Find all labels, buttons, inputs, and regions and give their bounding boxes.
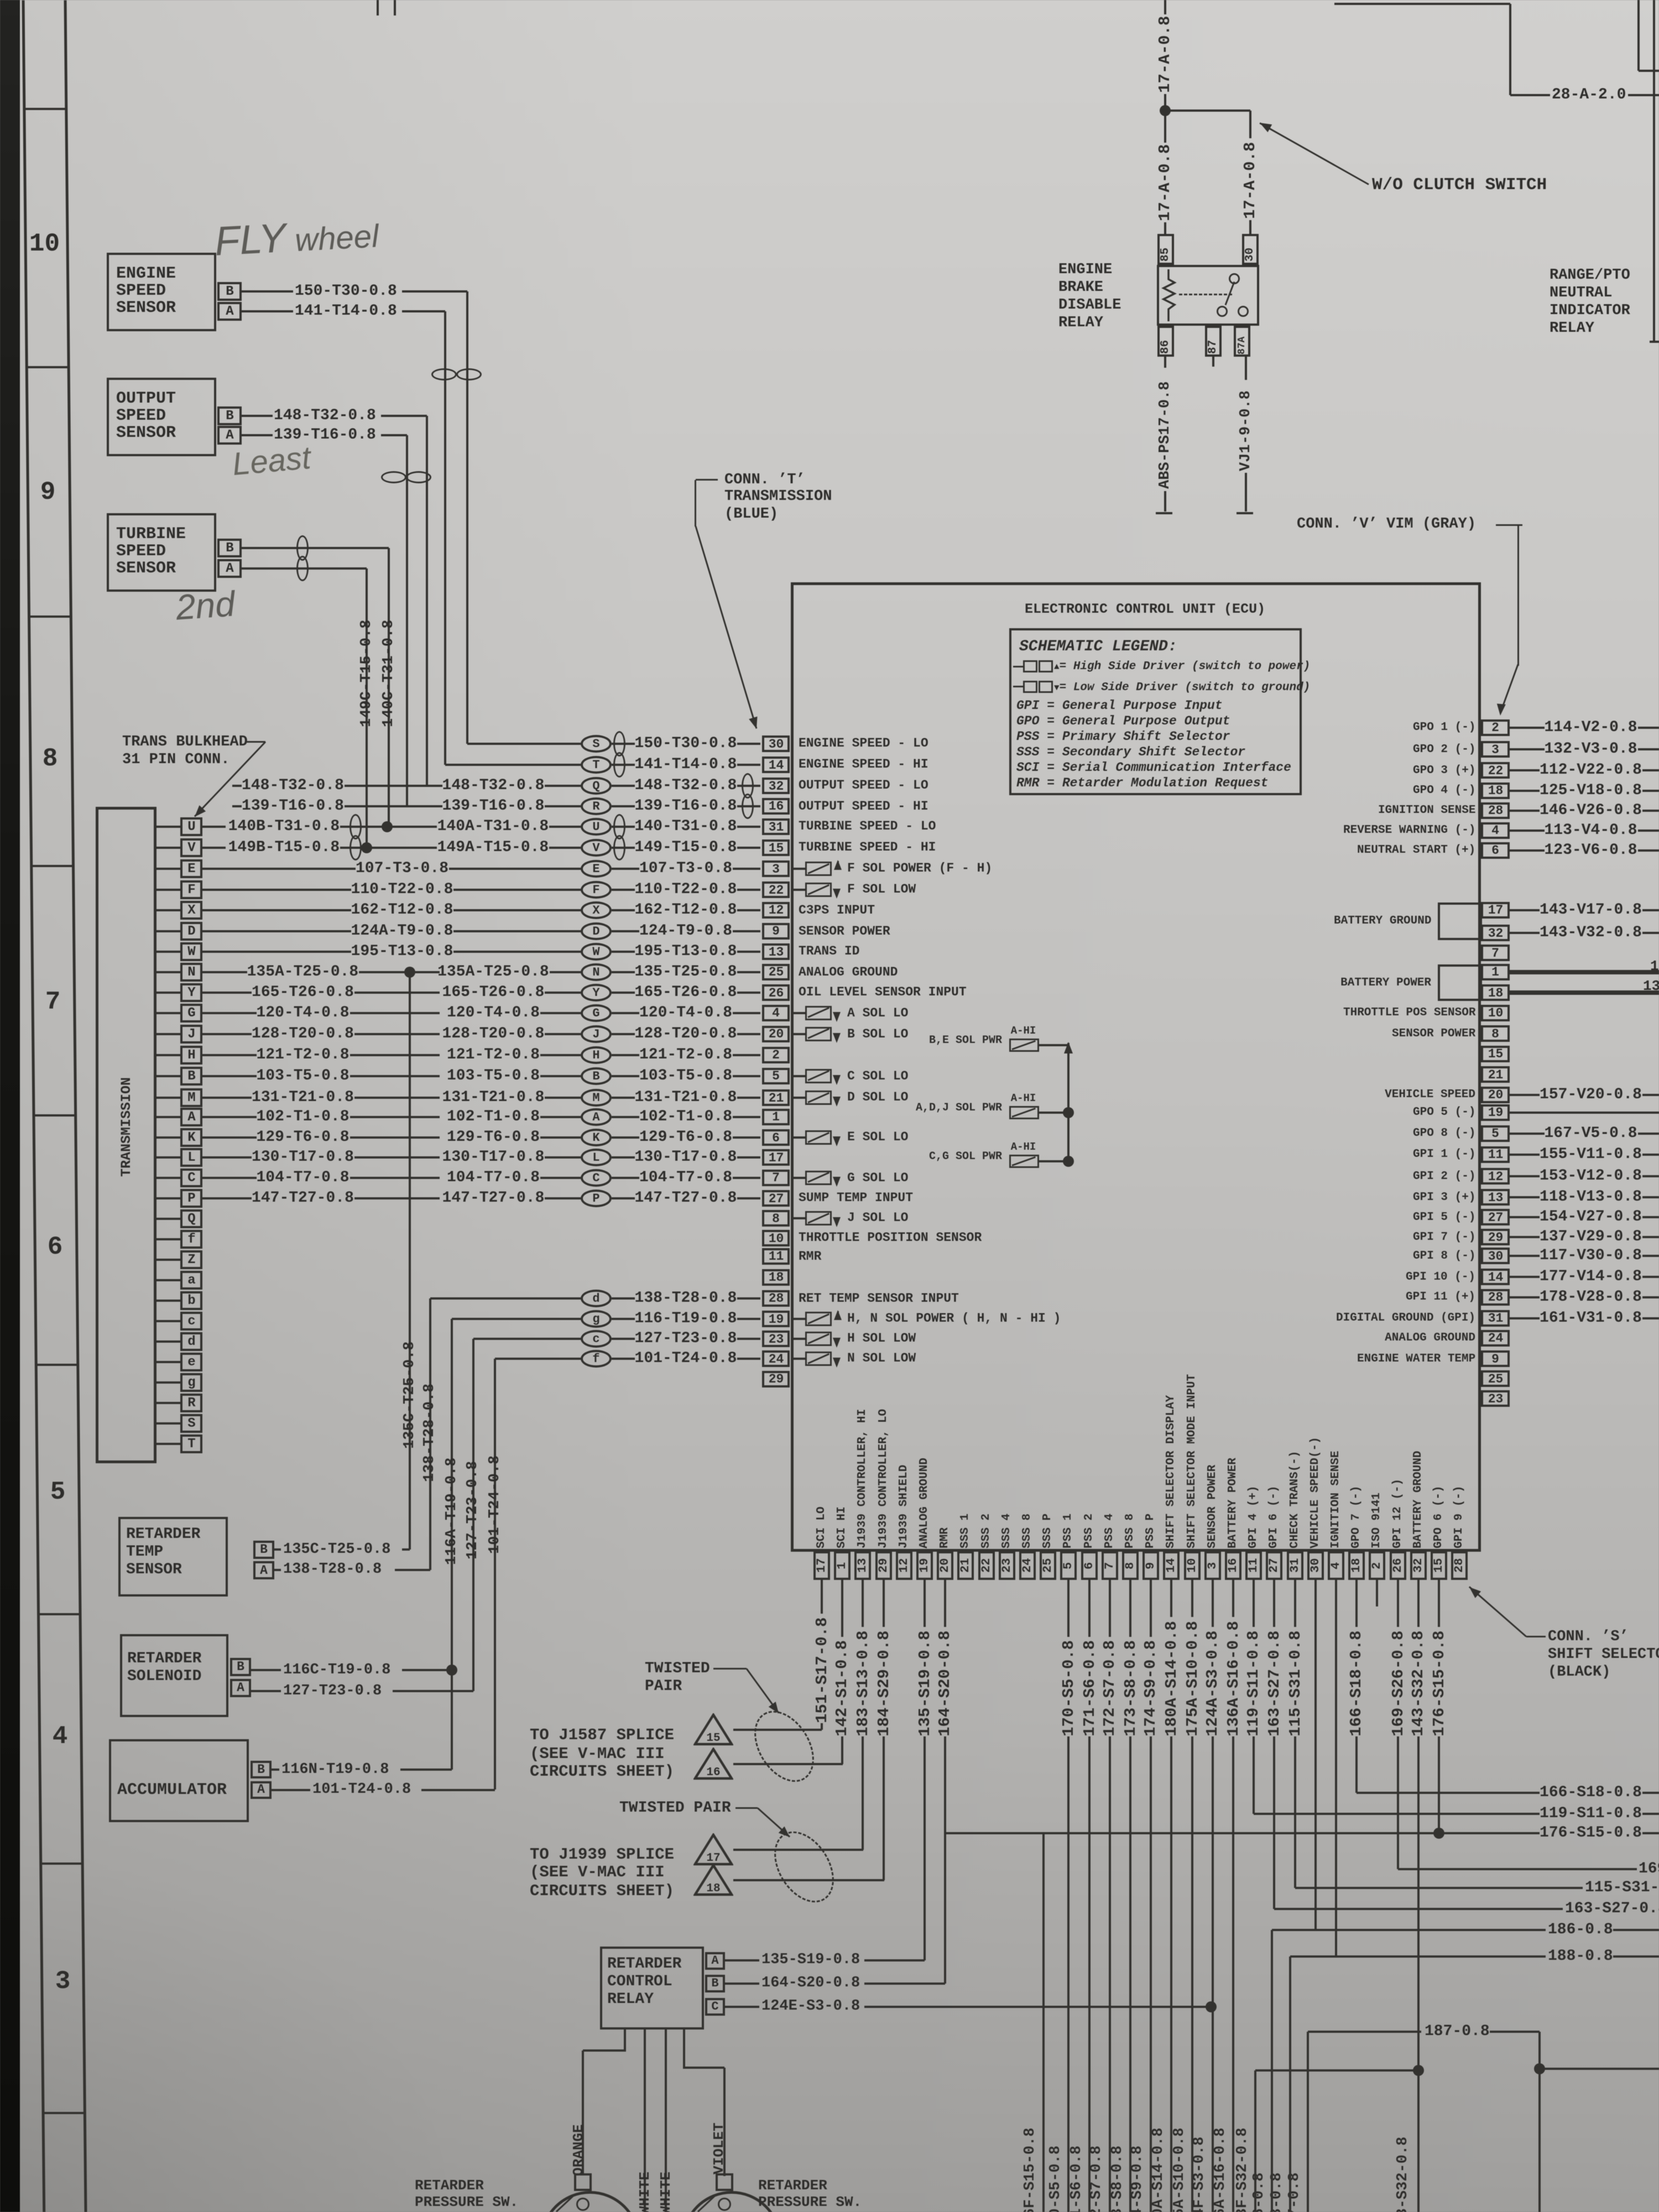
battery wire edge label 1 xyxy=(1650,958,1659,974)
wire 178-V28-0.8 xyxy=(1510,1296,1540,1298)
row number 6 xyxy=(45,1233,65,1261)
retarder temp sensor xyxy=(118,1517,228,1597)
wire down from pin 6 171-S6-0.8 xyxy=(1088,1580,1091,1637)
wire 125-V18-0.8 xyxy=(1510,790,1540,792)
ECU bottom pin 15 xyxy=(1431,1551,1447,1580)
connector pin E xyxy=(156,868,180,870)
ECU pin 20 right xyxy=(1481,1087,1510,1103)
legend text line xyxy=(1016,776,1268,790)
node g xyxy=(581,1310,612,1328)
cut wire stub top 1 xyxy=(377,0,379,15)
leader arrow to connector xyxy=(246,741,265,743)
ECU signal label TRANS ID xyxy=(799,945,859,958)
wire row C xyxy=(257,1170,349,1186)
wire to splice 16 xyxy=(733,1763,843,1765)
ECU pin 29 right xyxy=(1481,1229,1510,1245)
junction 17-A xyxy=(1160,105,1171,116)
ECU bottom pin 25 xyxy=(1040,1551,1056,1580)
wire 116N-T19-0.8 to accumulator xyxy=(272,1768,279,1771)
ECU right label DIGITAL GROUND (GPI) xyxy=(1336,1312,1475,1324)
connector pin N xyxy=(156,971,180,973)
ECU bottom pin 30 xyxy=(1307,1551,1324,1580)
ECU bottom pin 14 xyxy=(1163,1551,1180,1580)
ECU pin 17 right xyxy=(1481,902,1510,919)
wire row G xyxy=(257,1005,349,1021)
wire 127-T23-0.8 xyxy=(635,1331,737,1347)
ECU pin 15 right xyxy=(1481,1046,1510,1062)
node B xyxy=(581,1067,612,1085)
wire down from pin 8 173-S8-0.8 xyxy=(1129,1580,1131,1637)
wire 116-T19-0.8 xyxy=(635,1311,737,1327)
ECU pin 29 xyxy=(762,1371,790,1387)
node S xyxy=(581,735,612,753)
wire 162-T12-0.8 xyxy=(635,902,737,919)
node R xyxy=(581,797,612,815)
wire 146-V26-0.8 xyxy=(1510,810,1540,812)
wire row J xyxy=(252,1026,354,1042)
row number 9 xyxy=(38,478,58,506)
relay pin 87A xyxy=(1234,326,1250,357)
wire 115-S31-0.8 horizontal xyxy=(1295,1887,1583,1889)
connector pin W xyxy=(156,951,180,953)
junction 149B-T15-0.8 xyxy=(361,842,372,853)
relay coil xyxy=(1161,269,1178,322)
ECU pin 27 xyxy=(762,1190,790,1207)
wire down from pin 13 183-S13-0.8 xyxy=(862,1580,864,1627)
ECU right label GPO 4 (-) xyxy=(1413,784,1475,797)
ECU pin 12 xyxy=(762,902,790,919)
wire 112-V22-0.8 xyxy=(1510,769,1540,771)
node J xyxy=(581,1025,612,1043)
wire 149C-T15-0.8 turbine A xyxy=(242,567,367,570)
ECU bottom pin label PSS 2 xyxy=(1083,1512,1096,1548)
wire 123-V6-0.8 xyxy=(1510,849,1545,852)
ECU bottom pin label SSS 8 xyxy=(1021,1512,1034,1548)
ECU bottom pin label BATTERY GROUND xyxy=(1412,1448,1425,1548)
wire 127-T23-0.8 to solenoid xyxy=(251,1690,281,1692)
ECU bottom pin label ANALOG GROUND xyxy=(918,1455,931,1548)
label 170-S5-0.8 bottom xyxy=(1047,2143,1065,2212)
label 136A-S16-0.8 bottom xyxy=(1212,2124,1229,2212)
ECU bottom pin 27 xyxy=(1266,1551,1282,1580)
connector pin M xyxy=(156,1097,180,1099)
wire 154-V27-0.8 xyxy=(1510,1216,1540,1218)
ECU right label GPI 10 (-) xyxy=(1406,1271,1475,1284)
wire 138-T28-0.8 xyxy=(635,1290,737,1307)
ECU pin 7 xyxy=(762,1170,790,1186)
engine speed sensor xyxy=(107,253,216,331)
border line outer xyxy=(22,0,46,2212)
leader to ECU right pins xyxy=(1517,525,1519,666)
wire row Y xyxy=(252,984,354,1001)
label 174-S9-0.8 bottom xyxy=(1129,2143,1146,2212)
node T xyxy=(581,756,612,774)
connector pin J xyxy=(156,1033,180,1035)
ECU pin 25 xyxy=(762,964,790,980)
wire 116C-T19-0.8 to solenoid xyxy=(251,1669,281,1671)
wire row K xyxy=(257,1129,349,1146)
splice triangle 15 xyxy=(693,1713,733,1746)
junction 135A-T25-0.8 xyxy=(404,967,415,978)
wire 117-V30-0.8 xyxy=(1510,1255,1540,1257)
connector pin V xyxy=(156,847,180,849)
cut wire stub top 2 xyxy=(394,0,396,15)
wire row D xyxy=(351,923,453,940)
connector pin B xyxy=(156,1075,180,1077)
driver H, N SOL POWER ( H, N - HI ) xyxy=(791,1318,805,1320)
ECU right label THROTTLE POS SENSOR xyxy=(1343,1006,1475,1019)
riser 127-T23-0.8 xyxy=(472,1339,474,1691)
label 172-S7-0.8 bottom xyxy=(1088,2143,1105,2212)
wire 186-0.8 horizontal xyxy=(1272,1929,1546,1931)
wire down from pin 11 119-S11-0.8 xyxy=(1253,1580,1255,1627)
wire 161-V31-0.8 xyxy=(1510,1317,1540,1319)
ECU bottom pin 20 xyxy=(937,1551,953,1580)
label 176F-S15-0.8 bottom xyxy=(1022,2124,1039,2212)
connector pin X xyxy=(156,909,180,911)
ECU pin 1 xyxy=(762,1109,790,1125)
retarder solenoid xyxy=(120,1634,228,1717)
ECU bottom pin label PSS 8 xyxy=(1124,1512,1137,1548)
ECU pin 10 right xyxy=(1481,1005,1510,1021)
ECU bottom pin label GPO 6 (-) xyxy=(1432,1484,1446,1548)
ECU bottom pin 9 xyxy=(1142,1551,1159,1580)
ECU right label IGNITION SENSE xyxy=(1378,804,1475,817)
wire 148-T32-0.8 xyxy=(635,778,737,794)
ECU bottom pin label SSS P xyxy=(1041,1512,1055,1548)
ECU right label NEUTRAL START (+) xyxy=(1357,844,1475,857)
ECU pin 14 xyxy=(762,757,790,773)
wire down from pin 2 xyxy=(1376,1580,1378,1606)
splice triangle 16 xyxy=(693,1747,733,1781)
junction sol pwr C,G xyxy=(1063,1156,1074,1167)
battery ground bracket xyxy=(1438,902,1482,940)
wire 143F-S32 vertical xyxy=(1254,2070,1256,2212)
ECU pin 14 right xyxy=(1481,1269,1510,1285)
connector pin C xyxy=(156,1177,180,1179)
twisted pair ellipse upper xyxy=(742,1700,826,1792)
ECU pin 31 xyxy=(762,818,790,835)
legend high side driver symbol xyxy=(1013,666,1023,667)
label 140C-T31-0.8 xyxy=(380,616,398,727)
ECU bottom pin 10 xyxy=(1184,1551,1201,1580)
node D xyxy=(581,922,612,940)
relay bottom wire white 1 xyxy=(644,2030,646,2212)
wire 153-V12-0.8 xyxy=(1510,1175,1540,1177)
sol power bus vertical xyxy=(1067,1043,1070,1161)
junction 116 at solenoid xyxy=(446,1665,457,1676)
ECU bottom pin label J1939 CONTROLLER, HI xyxy=(856,1405,869,1548)
connector pin L xyxy=(156,1156,180,1159)
wire 113-V4-0.8 xyxy=(1510,830,1545,832)
connector pin R xyxy=(156,1402,180,1404)
node U xyxy=(581,818,612,836)
label 173-S8-0.8 bottom xyxy=(1109,2143,1126,2212)
node f xyxy=(581,1350,612,1368)
wire 119-S11-0.8 horizontal xyxy=(1254,1813,1540,1815)
ECU signal label RMR xyxy=(799,1250,821,1264)
ECU bottom pin 18 xyxy=(1348,1551,1365,1580)
wire 121-T2-0.8 xyxy=(639,1047,732,1063)
ECU bottom pin 4 xyxy=(1328,1551,1344,1580)
connector pin g xyxy=(156,1381,180,1384)
label 175A-S10-0.8 bottom xyxy=(1171,2124,1188,2212)
wire down from pin 32 143-S32-0.8 xyxy=(1417,1580,1420,1627)
ECU bottom pin 22 xyxy=(978,1551,995,1580)
ECU body xyxy=(791,582,1481,1552)
ECU pin 8 xyxy=(762,1210,790,1227)
ECU pin 8 right xyxy=(1481,1025,1510,1042)
driver B SOL LO xyxy=(791,1033,805,1035)
ECU signal label THROTTLE POSITION SENSOR xyxy=(799,1231,982,1245)
wire down from pin 14 180A-S14-0.8 xyxy=(1170,1580,1172,1617)
wire row E xyxy=(356,860,448,877)
ECU pin 9 right xyxy=(1481,1350,1510,1367)
ECU bottom pin 8 xyxy=(1122,1551,1139,1580)
relay pin 86 xyxy=(1157,326,1174,357)
node A xyxy=(581,1108,612,1126)
ECU pin 13 right xyxy=(1481,1189,1510,1206)
connector pin P xyxy=(156,1197,180,1199)
ECU pin 21 right xyxy=(1481,1066,1510,1083)
wire 132-V3-0.8 xyxy=(1510,748,1545,750)
wire down from pin 16 136A-S16-0.8 xyxy=(1232,1580,1234,1617)
relay contact NO xyxy=(1238,306,1249,317)
twisted pair ellipse lower xyxy=(762,1820,846,1913)
ECU bottom pin label ISO 9141 xyxy=(1370,1491,1384,1548)
node V xyxy=(581,839,612,857)
ECU right label REVERSE WARNING (-) xyxy=(1343,824,1475,837)
driver D SOL LO xyxy=(791,1097,805,1099)
wire to splice 18 xyxy=(733,1879,884,1881)
ECU bottom pin label SENSOR POWER xyxy=(1206,1462,1219,1548)
ECU right label GPI 11 (+) xyxy=(1406,1291,1475,1303)
wire 124E-S3-0.8 relay C xyxy=(725,2006,759,2008)
ECU bottom pin 32 xyxy=(1410,1551,1427,1580)
wire VJ1-9-0.8 xyxy=(1245,357,1247,380)
legend title xyxy=(1019,639,1177,655)
node P xyxy=(581,1190,612,1207)
ECU pin 19 right xyxy=(1481,1104,1510,1121)
svg-text:18: 18 xyxy=(706,1882,720,1895)
wire 155-V11-0.8 xyxy=(1510,1154,1540,1156)
riser 116A-T19-0.8 xyxy=(451,1319,453,1770)
driver A SOL LO xyxy=(791,1012,805,1014)
ECU signal label OUTPUT SPEED - HI xyxy=(799,800,928,813)
driver J SOL LO xyxy=(791,1217,805,1219)
node Q xyxy=(581,777,612,795)
wire down from pin 10 175A-S10-0.8 xyxy=(1191,1580,1193,1617)
junction 187 right xyxy=(1534,2063,1545,2074)
wire down from pin 17 151-S17-0.8 xyxy=(821,1580,823,1614)
ECU pin 7 right xyxy=(1481,945,1510,961)
wire row f xyxy=(495,1358,581,1360)
ECU pin 18 xyxy=(762,1269,790,1286)
leader arrow clutch switch xyxy=(1259,122,1369,185)
wire ABS-PS17-0.8 xyxy=(1164,357,1166,368)
wire violet xyxy=(683,2030,685,2069)
ECU bottom pin label SCI HI xyxy=(836,1505,849,1548)
ECU pin 17 xyxy=(762,1149,790,1166)
wire 148-T32-0.8 output B xyxy=(242,415,273,417)
accumulator xyxy=(109,1739,249,1822)
wire 195-T13-0.8 xyxy=(635,943,737,960)
relay pin 87 stub xyxy=(1212,357,1214,367)
border line inner xyxy=(64,0,87,2212)
connector pin D xyxy=(156,930,180,932)
wire from pin 18 xyxy=(1510,990,1659,995)
ECU bottom pin 16 xyxy=(1225,1551,1241,1580)
label RANGE/PTO NEUTRAL INDICATOR RELAY xyxy=(1550,268,1630,284)
wire row R xyxy=(242,798,344,815)
label 143F-S32-0.8 bottom xyxy=(1234,2124,1251,2212)
ECU pin 15 xyxy=(762,839,790,856)
driver H SOL LOW xyxy=(791,1338,805,1340)
wire row N xyxy=(247,964,359,980)
ECU signal label C3PS INPUT xyxy=(799,904,875,917)
label 143-S32-0.8 bottom xyxy=(1395,2133,1412,2212)
ECU bottom pin 13 xyxy=(854,1551,871,1580)
ECU bottom pin label J1939 SHIELD xyxy=(898,1462,911,1548)
driver F SOL POWER (F - H) xyxy=(791,868,805,870)
connector pin F xyxy=(156,889,180,891)
wire 157-V20-0.8 xyxy=(1510,1094,1540,1096)
wire 124-T9-0.8 xyxy=(639,923,732,940)
wire down from pin 3 124A-S3-0.8 xyxy=(1212,1580,1214,1627)
connector pin S xyxy=(156,1422,180,1425)
sol power feed B,E SOL PWR xyxy=(929,1035,1002,1047)
ECU bottom pin 3 xyxy=(1204,1551,1221,1580)
leader arrow to pin 28 xyxy=(1526,1636,1546,1637)
wire to splice 17 xyxy=(733,1849,863,1851)
ECU pin 21 xyxy=(762,1089,790,1106)
wire 110-T22-0.8 xyxy=(635,881,737,898)
schematic legend box xyxy=(1009,628,1302,795)
ECU bottom pin 21 xyxy=(957,1551,974,1580)
ECU right label GPI 7 (-) xyxy=(1413,1231,1475,1244)
ECU bottom pin label PSS 4 xyxy=(1103,1512,1117,1548)
splice triangle 17 xyxy=(693,1833,733,1866)
wire 139-T16-0.8 output A xyxy=(242,434,273,436)
wire 140C-T31-0.8 turbine B xyxy=(242,547,389,549)
ECU pin 26 xyxy=(762,984,790,1001)
wire row A xyxy=(257,1109,349,1125)
node N xyxy=(581,963,612,981)
ECU bottom pin label GPO 7 (-) xyxy=(1350,1484,1363,1548)
row number 4 xyxy=(50,1723,70,1750)
wire 164-S20-0.8 relay B xyxy=(725,1983,759,1985)
turbine speed sensor xyxy=(107,513,216,592)
ECU signal label RET TEMP SENSOR INPUT xyxy=(799,1292,959,1306)
wire down from pin 15 176-S15-0.8 xyxy=(1438,1580,1440,1627)
ECU bottom pin label VEHICLE SPEED(-) xyxy=(1309,1433,1322,1548)
ECU signal label OUTPUT SPEED - LO xyxy=(799,779,928,792)
ECU pin 2 right xyxy=(1481,719,1510,736)
wire down from pin 27 163-S27-0.8 xyxy=(1273,1580,1275,1627)
junction 124 at pin3 wire xyxy=(1206,2001,1217,2012)
ECU bottom pin 24 xyxy=(1019,1551,1036,1580)
retarder control relay xyxy=(600,1947,704,2030)
ECU right label ANALOG GROUND xyxy=(1385,1332,1475,1344)
engine brake disable relay xyxy=(1157,265,1259,326)
wire 188-0.8 horizontal xyxy=(1290,1955,1546,1958)
label 187-0.8 bottom xyxy=(1286,2171,1303,2212)
ECU right label GPO 3 (+) xyxy=(1413,764,1475,777)
wire 101-T24-0.8 xyxy=(635,1350,737,1367)
relay bottom wire white 2 xyxy=(665,2030,667,2212)
wire sensor to node S xyxy=(467,743,581,745)
wire 107-T3-0.8 xyxy=(639,860,732,877)
wire 17-A-0.8 branch vertical xyxy=(1249,111,1251,138)
ECU pin 23 right xyxy=(1481,1390,1510,1407)
node F xyxy=(581,881,612,899)
ECU bottom pin label BATTERY POWER xyxy=(1227,1455,1240,1548)
ECU bottom pin label PSS 1 xyxy=(1062,1512,1075,1548)
wire 17-A-0.8 vertical xyxy=(1164,0,1166,14)
label 188-0.8 bottom xyxy=(1269,2171,1286,2212)
wire 187-0.8 vertical left xyxy=(1307,2032,1309,2212)
ECU bottom pin label SHIFT SELECTOR DISPLAY xyxy=(1165,1390,1178,1548)
label BATTERY GROUND xyxy=(1334,915,1431,927)
ECU pin 3 xyxy=(762,860,790,877)
wire 120-T4-0.8 xyxy=(639,1005,732,1021)
ECU right label GPI 2 (-) xyxy=(1413,1170,1475,1183)
ECU pin 6 right xyxy=(1481,842,1510,859)
wire 141-T14-0.8 xyxy=(635,757,737,773)
driver F SOL LOW xyxy=(791,889,805,891)
wire down from pin 4 xyxy=(1335,1580,1337,1957)
ECU right label VEHICLE SPEED xyxy=(1385,1088,1475,1101)
riser 101-T24-0.8 xyxy=(494,1359,496,1790)
relay pin 85 xyxy=(1157,234,1174,265)
wire 17-A branch horizontal xyxy=(1165,109,1250,112)
wire row Q xyxy=(242,778,344,794)
wire down from pin 18 166-S18-0.8 xyxy=(1355,1580,1358,1627)
connector pin b xyxy=(156,1300,180,1302)
ECU bottom pin 17 xyxy=(813,1551,830,1580)
label 149C-T15-0.8 xyxy=(358,616,375,727)
sol power feed C,G SOL PWR xyxy=(929,1151,1002,1163)
wire down from pin 9 174-S9-0.8 xyxy=(1150,1580,1152,1637)
wire row W xyxy=(351,943,453,960)
label CONN S SHIFT SELECTOR xyxy=(1548,1629,1629,1645)
ECU pin 6 xyxy=(762,1129,790,1146)
connector pin e xyxy=(156,1361,180,1363)
wire 186-0.8 vertical xyxy=(1271,1930,1273,2212)
label TWISTED PAIR lower xyxy=(619,1800,731,1817)
ECU bottom pin label SHIFT SELECTOR MODE INPUT xyxy=(1186,1368,1199,1548)
output speed sensor xyxy=(107,378,216,456)
wire 104-T7-0.8 xyxy=(639,1170,732,1186)
wire row d xyxy=(430,1297,581,1300)
ECU signal label SUMP TEMP INPUT xyxy=(799,1191,913,1205)
ECU right label GPO 1 (-) xyxy=(1413,721,1475,734)
wire down from pin 20 164-S20-0.8 xyxy=(944,1580,946,1627)
junction sol pwr A,D,J xyxy=(1063,1107,1074,1118)
wire 141-T14-0.8 engine A xyxy=(242,310,293,312)
label 180A-S14-0.8 bottom xyxy=(1150,2124,1167,2212)
driver N SOL LOW xyxy=(791,1358,805,1360)
ECU pin 23 xyxy=(762,1331,790,1347)
riser 138-T28-0.8 xyxy=(429,1298,431,1570)
relay switch blade xyxy=(1225,281,1235,305)
node C xyxy=(581,1169,612,1187)
relay contact common xyxy=(1229,273,1240,284)
row number 7 xyxy=(43,988,62,1016)
node M xyxy=(581,1089,612,1107)
ECU pin 22 right xyxy=(1481,762,1510,779)
jog pin30 to 186 xyxy=(1272,1929,1316,1931)
